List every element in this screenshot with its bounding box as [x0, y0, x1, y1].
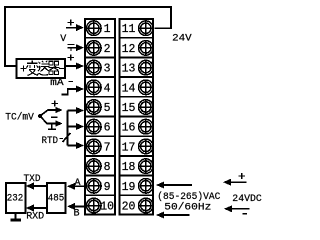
arrowhead into terminal 7	[76, 142, 84, 149]
terminal screw 12	[139, 41, 154, 56]
wire TXD 485 to 232	[33, 185, 47, 187]
svg-text:232: 232	[7, 194, 24, 205]
RTD lead dash	[60, 138, 64, 140]
row separator 8/9	[84, 175, 154, 177]
terminal screw 13	[139, 60, 154, 75]
box 485	[47, 183, 66, 213]
svg-text:50/60Hz: 50/60Hz	[164, 202, 211, 214]
terminal numbers 1-10	[100, 23, 114, 213]
row separator 5/6	[84, 116, 154, 118]
label + for V input	[68, 20, 75, 26]
arrowhead RXD into 232	[26, 205, 34, 212]
row separator 9/10	[84, 194, 154, 196]
row separator 7/8	[84, 155, 154, 157]
terminal screw 11	[139, 21, 154, 36]
bus wire to terminals 5 6 7	[68, 111, 78, 146]
terminal screw 7	[87, 139, 102, 154]
svg-text:A: A	[75, 178, 81, 189]
label minus 24VDC	[243, 213, 248, 215]
terminal screws left column	[87, 21, 102, 213]
svg-text:6: 6	[104, 122, 111, 135]
row separator 4/5	[84, 96, 154, 98]
svg-text:16: 16	[122, 122, 136, 135]
svg-text:1: 1	[104, 23, 111, 36]
terminal screw 17	[139, 139, 154, 154]
svg-text:3: 3	[104, 63, 111, 76]
ground stem under 232	[15, 213, 17, 219]
arrowhead into terminal 20	[156, 212, 164, 219]
label + above wire to terminal 3	[68, 55, 75, 61]
terminal screw 8	[87, 159, 102, 174]
wire 24VDC plus	[230, 181, 247, 183]
wire mA step to terminal 4	[62, 89, 78, 95]
arrowhead into terminal 5	[76, 107, 84, 114]
row separator 6/7	[84, 135, 154, 137]
label minus-plus for V input	[68, 45, 75, 52]
svg-text:12: 12	[122, 43, 136, 56]
svg-text:(85-265)VAC: (85-265)VAC	[157, 191, 220, 203]
wire V+ to terminal 1	[66, 27, 77, 29]
wire terminal 10 to 485 B	[74, 205, 84, 207]
terminal screw 18	[139, 159, 154, 174]
node dot TC fork	[38, 114, 42, 118]
svg-text:10: 10	[100, 201, 114, 214]
terminal numbers 11-20	[122, 23, 136, 213]
svg-text:4: 4	[104, 82, 111, 95]
svg-text:18: 18	[122, 161, 136, 174]
terminal block left column	[85, 19, 115, 215]
svg-text:17: 17	[122, 141, 136, 154]
terminal screw 14	[139, 80, 154, 95]
wire to terminal 2	[75, 47, 78, 49]
terminal screw 2	[87, 41, 102, 56]
svg-text:24V: 24V	[172, 34, 192, 45]
terminal screw 19	[139, 179, 154, 194]
transmitter box U1	[17, 59, 66, 78]
svg-text:TC/mV: TC/mV	[5, 112, 34, 124]
svg-text:14: 14	[122, 82, 136, 95]
ground bar	[10, 219, 21, 222]
label + inside transmitter box	[21, 66, 27, 72]
label minus for mA	[69, 81, 74, 83]
label minus inside transmitter box right	[59, 68, 64, 70]
wire RXD 485 to 232	[33, 207, 47, 209]
label + 24VDC	[239, 173, 245, 179]
RTD lead slash to bus	[63, 133, 71, 142]
svg-text:13: 13	[122, 63, 136, 76]
terminal block right column	[119, 19, 153, 215]
svg-text:9: 9	[104, 181, 111, 194]
wire AC line to terminal 19	[164, 184, 193, 186]
wire transmitter to terminal 3	[65, 65, 77, 67]
svg-text:mA: mA	[50, 78, 64, 89]
wire 24V loop from terminal 11 to transmitter box	[5, 7, 171, 66]
wire TC plus branch	[40, 110, 56, 116]
arrowhead TXD into 232	[26, 183, 34, 190]
terminal screw 1	[87, 21, 102, 36]
svg-text:5: 5	[104, 102, 111, 115]
svg-text:B: B	[74, 209, 80, 220]
terminal screw 16	[139, 119, 154, 134]
terminal screw 10	[87, 198, 102, 213]
arrowhead into terminal 6	[76, 123, 84, 130]
svg-text:2: 2	[104, 43, 111, 56]
svg-text:11: 11	[122, 23, 136, 36]
hanzi bian 变	[26, 60, 38, 75]
arrowhead TC plus	[56, 107, 63, 113]
wire TC minus branch	[40, 116, 56, 124]
arrowhead into terminal 1	[76, 24, 84, 31]
arrowhead A into 485	[67, 183, 75, 190]
svg-text:RXD: RXD	[26, 212, 44, 223]
terminal screw 4	[87, 80, 102, 95]
terminal screw 15	[139, 100, 154, 115]
arrowhead into terminal 2	[76, 44, 84, 51]
label minus TC	[51, 116, 58, 118]
arrowhead 24VDC minus	[224, 205, 232, 212]
svg-text:V: V	[60, 34, 66, 45]
wire AC neutral to terminal 20	[164, 214, 190, 216]
terminal screw 3	[87, 60, 102, 75]
arrowhead into terminal 4	[76, 86, 84, 93]
svg-text:19: 19	[122, 181, 136, 194]
terminal screw 5	[87, 100, 102, 115]
arrowhead 24VDC plus	[223, 179, 231, 186]
arrowhead into terminal 3	[76, 63, 84, 70]
wire terminal 9 to 485 A	[74, 185, 84, 187]
row separator 3/4	[84, 76, 154, 78]
arrowhead TC minus	[56, 120, 63, 126]
arrowhead into terminal 19	[156, 182, 164, 189]
hanzi song 送	[38, 61, 50, 75]
svg-text:7: 7	[104, 141, 111, 154]
box 232	[6, 183, 26, 213]
terminal screw 9	[87, 179, 102, 194]
terminal screws right column	[139, 21, 154, 213]
hanzi qi 器	[49, 61, 60, 74]
row separator 1/2	[84, 37, 154, 39]
svg-text:20: 20	[122, 201, 136, 214]
label + TC	[52, 101, 59, 107]
terminal screw 6	[87, 119, 102, 134]
row separator 2/3	[84, 56, 154, 58]
svg-text:24VDC: 24VDC	[232, 194, 261, 205]
wire 24VDC minus	[231, 208, 250, 210]
ground tick on TC minus lead	[48, 124, 56, 129]
svg-text:RTD: RTD	[42, 136, 59, 147]
svg-text:8: 8	[104, 161, 111, 174]
svg-text:485: 485	[48, 194, 65, 205]
svg-text:15: 15	[122, 102, 136, 115]
arrowhead B into 485	[67, 203, 75, 210]
terminal screw 20	[139, 198, 154, 213]
